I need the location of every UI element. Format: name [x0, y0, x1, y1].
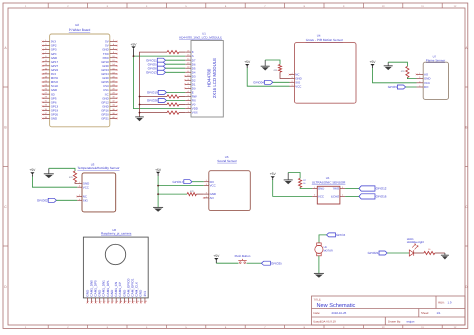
- U4 pins NC GND SIG VCC: [289, 72, 302, 88]
- svg-text:11: 11: [421, 5, 424, 8]
- svg-text:GPIO02: GPIO02: [37, 198, 48, 202]
- svg-text:1k: 1k: [428, 248, 431, 251]
- svg-text:9: 9: [121, 300, 122, 303]
- ground (LCD): [135, 116, 144, 121]
- svg-text:C: C: [4, 205, 7, 209]
- ground (motor): [314, 273, 324, 277]
- push button SW: [235, 254, 251, 264]
- svg-text:2: 2: [206, 183, 207, 186]
- svg-text:4: 4: [291, 72, 292, 75]
- svg-text:GND: GND: [318, 187, 324, 191]
- svg-text:GPIO26: GPIO26: [147, 99, 158, 103]
- resistor 1k (LED): [424, 248, 435, 255]
- svg-text:REV:: REV:: [438, 301, 445, 305]
- IC U5 ULTRASONIC SENSOR: [312, 176, 346, 204]
- wire LED to resistor: [414, 252, 424, 254]
- wire GPIO6 to D5: [166, 67, 186, 69]
- svg-text:2: 2: [314, 194, 315, 197]
- U2 left pins 1-39: [42, 39, 59, 121]
- svg-text:GPIO21: GPIO21: [368, 251, 379, 255]
- ground (U3): [44, 168, 54, 178]
- svg-text:7: 7: [264, 5, 266, 8]
- svg-text:1: 1: [188, 110, 189, 113]
- U5 pins GND TRIG VCC ECHO: [312, 186, 345, 199]
- svg-text:VCC: VCC: [210, 184, 216, 188]
- wire motor to ground: [318, 256, 320, 274]
- wire resistor to U5 GND: [300, 187, 312, 188]
- +5V power flag (U6): [155, 168, 162, 176]
- svg-text:+5V: +5V: [131, 42, 138, 46]
- svg-text:1.0: 1.0: [448, 301, 452, 305]
- svg-text:U2: U2: [75, 23, 79, 27]
- svg-text:Grove - PIR Motion Sensor: Grove - PIR Motion Sensor: [306, 38, 343, 42]
- svg-text:ULTRASONIC SENSOR: ULTRASONIC SENSOR: [312, 180, 346, 184]
- wire +5V to U4 VCC: [247, 68, 289, 86]
- svg-text:Drawn By:: Drawn By:: [388, 320, 401, 324]
- ground (LED): [441, 253, 449, 260]
- svg-text:3: 3: [419, 80, 420, 83]
- svg-text:srajan: srajan: [407, 320, 415, 324]
- svg-text:15: 15: [187, 54, 189, 57]
- svg-text:R?: R?: [303, 179, 307, 182]
- svg-text:10: 10: [187, 74, 189, 77]
- svg-text:+5V: +5V: [244, 60, 251, 64]
- svg-text:GPIO04: GPIO04: [253, 80, 264, 84]
- svg-text:1: 1: [79, 181, 80, 184]
- svg-text:3V3: 3V3: [143, 291, 147, 297]
- svg-text:4: 4: [100, 300, 101, 303]
- svg-text:GPIO25: GPIO25: [271, 261, 282, 265]
- net flag GPIO4 (motor): [327, 233, 346, 237]
- net flag GPIO9: [388, 85, 406, 89]
- svg-text:1/1: 1/1: [437, 311, 441, 315]
- svg-text:GPIO17: GPIO17: [172, 180, 183, 184]
- IC U8 Raspberry pi camera: [83, 228, 148, 298]
- net flag GPIO19: [147, 90, 167, 94]
- ground (U4): [261, 60, 270, 71]
- svg-text:6: 6: [188, 90, 189, 93]
- wire ground to resistor (U7): [388, 62, 407, 66]
- svg-text:+5V: +5V: [270, 172, 277, 176]
- svg-text:2: 2: [291, 80, 292, 83]
- svg-text:B: B: [4, 126, 7, 130]
- svg-text:4: 4: [146, 5, 148, 8]
- svg-text:Push Button: Push Button: [235, 254, 251, 258]
- svg-text:Temperature&Humidity Sensor: Temperature&Humidity Sensor: [77, 166, 119, 170]
- net flag GPIO26: [147, 99, 167, 103]
- net flag GPIO16: [359, 194, 387, 199]
- svg-text:TITLE:: TITLE:: [314, 298, 322, 301]
- svg-text:1: 1: [88, 300, 89, 303]
- svg-text:8: 8: [304, 5, 306, 8]
- svg-text:6: 6: [225, 5, 227, 8]
- svg-text:DO: DO: [424, 85, 429, 89]
- svg-text:7: 7: [188, 86, 189, 89]
- svg-text:470: 470: [273, 69, 277, 72]
- wire TRIG to flag: [345, 188, 359, 190]
- svg-text:+5V: +5V: [155, 168, 162, 172]
- wire resistor to ground (LED): [435, 252, 445, 254]
- net flag GPIO17: [172, 180, 192, 184]
- svg-text:1: 1: [291, 84, 292, 87]
- net flag GPIO11: [146, 58, 165, 62]
- svg-text:GPIO9: GPIO9: [388, 85, 398, 89]
- resistor 470 (U3): [69, 171, 77, 182]
- svg-text:3: 3: [291, 76, 292, 79]
- svg-text:VCC: VCC: [295, 84, 301, 88]
- svg-text:3: 3: [96, 300, 97, 303]
- svg-text:470: 470: [69, 176, 73, 179]
- resistor (LCD backlight K row): [167, 51, 185, 54]
- resistor 470 (U4): [273, 65, 281, 73]
- svg-text:Sound Sensor: Sound Sensor: [217, 159, 237, 163]
- wire ECHO to flag: [345, 195, 359, 197]
- svg-text:10: 10: [382, 5, 385, 8]
- +5V power flag (LCD): [131, 42, 138, 56]
- svg-text:AO: AO: [210, 196, 215, 200]
- svg-text:+5V: +5V: [29, 168, 36, 172]
- wire +5V to push button: [216, 262, 238, 264]
- net flag GPIO13: [146, 70, 166, 74]
- svg-text:12: 12: [187, 66, 189, 69]
- svg-text:VSS: VSS: [192, 111, 198, 115]
- U3 pins GND VCC NC SIG: [76, 181, 89, 203]
- IC U4 Grove PIR Motion Sensor: [295, 33, 357, 103]
- U7 pins AO GND VCC DO: [416, 72, 431, 89]
- svg-text:13: 13: [137, 300, 139, 303]
- svg-text:4: 4: [342, 194, 343, 197]
- net flag GPIO25: [261, 261, 282, 265]
- ground (U7): [384, 62, 393, 70]
- svg-text:2: 2: [79, 185, 80, 188]
- svg-text:6: 6: [109, 300, 110, 303]
- svg-text:11: 11: [187, 70, 189, 73]
- svg-text:2X16 LCD MODULE: 2X16 LCD MODULE: [212, 58, 217, 98]
- svg-text:LEDBlue-light: LEDBlue-light: [407, 240, 424, 244]
- IC U3 Temperature&Humidity Sensor: [77, 163, 119, 212]
- svg-text:14: 14: [141, 300, 143, 303]
- wire GPIO5 to D6: [166, 63, 186, 65]
- IC U1 HD44780 16x2 LCD module: [179, 32, 223, 117]
- svg-text:8: 8: [117, 300, 118, 303]
- svg-text:1: 1: [25, 5, 27, 8]
- junction node at +5V rail: [133, 55, 135, 57]
- U6 pins DO VCC GND AO: [203, 179, 216, 200]
- svg-text:GPIO4: GPIO4: [336, 233, 346, 237]
- svg-text:3: 3: [79, 194, 80, 197]
- svg-text:12: 12: [133, 300, 135, 303]
- +5V power flag (U7): [370, 60, 377, 68]
- resistor 470 (U6): [157, 190, 204, 196]
- svg-text:SIG: SIG: [83, 198, 89, 202]
- wire resistor to U4 GND: [280, 72, 290, 78]
- svg-text:Raspberry_pi_camera: Raspberry_pi_camera: [101, 231, 132, 235]
- resistor (LCD VSS row): [139, 111, 186, 114]
- +5V power flag (push button): [213, 254, 220, 263]
- +5V power flag (U5): [270, 172, 277, 180]
- svg-text:4: 4: [79, 198, 80, 201]
- svg-text:15: 15: [145, 300, 147, 303]
- svg-text:VCC: VCC: [318, 195, 324, 199]
- net flag GPIO5: [148, 62, 166, 66]
- wire GPIO26 to RS: [166, 100, 185, 102]
- wire resistor to U7 GND: [407, 78, 416, 79]
- svg-text:GPIO13: GPIO13: [146, 70, 157, 74]
- svg-text:U5: U5: [326, 176, 330, 180]
- svg-text:12: 12: [454, 5, 457, 8]
- svg-text:GPIO19: GPIO19: [147, 91, 158, 95]
- svg-text:10: 10: [125, 300, 127, 303]
- svg-text:Date:: Date:: [314, 311, 321, 315]
- svg-text:3: 3: [206, 192, 207, 195]
- svg-text:5: 5: [105, 300, 106, 303]
- svg-text:2018-10-25: 2018-10-25: [332, 311, 347, 315]
- wire GPIO13 to D4: [166, 71, 186, 73]
- svg-text:16: 16: [187, 50, 189, 53]
- net flag GPIO21 (LED): [368, 251, 388, 255]
- U1 pins 16..1: [184, 50, 198, 115]
- +5V power flag (U4): [244, 60, 251, 68]
- svg-text:4: 4: [206, 195, 207, 198]
- svg-text:13: 13: [187, 62, 189, 65]
- svg-text:1k: 1k: [303, 182, 306, 185]
- IC U7 Flame Sensor: [423, 55, 448, 100]
- svg-text:U4: U4: [317, 33, 321, 37]
- svg-text:GPIO16: GPIO16: [376, 195, 387, 199]
- svg-text:5: 5: [185, 5, 187, 8]
- ground (U5): [284, 173, 293, 185]
- svg-text:+5V: +5V: [370, 60, 377, 64]
- svg-text:+5V: +5V: [213, 254, 220, 258]
- wire +5V to U3 VCC: [32, 177, 77, 188]
- wire flag to motor: [319, 235, 327, 243]
- title block: [312, 296, 466, 325]
- wire ground to resistor top (U3): [49, 168, 75, 171]
- wire to U6 VCC: [157, 185, 204, 187]
- wire GPIO19 to E: [166, 91, 185, 93]
- svg-text:8: 8: [188, 82, 189, 85]
- svg-text:1: 1: [206, 179, 207, 182]
- svg-text:9: 9: [343, 5, 345, 8]
- svg-text:VCC: VCC: [83, 185, 89, 189]
- wire GPIO04 to U4 SIG: [273, 81, 290, 83]
- net flag GPIO12: [359, 186, 387, 191]
- +5V rail wire down to ground (U6): [157, 176, 159, 207]
- svg-text:1: 1: [314, 186, 315, 189]
- svg-text:New Schematic: New Schematic: [317, 302, 356, 309]
- resistor (LCD V0 row): [139, 103, 186, 106]
- svg-text:11: 11: [129, 300, 131, 303]
- svg-text:3: 3: [107, 5, 109, 8]
- net flag GPIO6: [148, 66, 166, 70]
- svg-text:4: 4: [419, 85, 420, 88]
- net flag GPIO02: [37, 198, 57, 202]
- wire GPIO11 to D7: [166, 59, 186, 61]
- svg-text:Sheet:: Sheet:: [421, 311, 429, 315]
- U8 camera pins 1-15: [85, 278, 147, 303]
- svg-text:GP21: GP21: [101, 117, 109, 121]
- svg-text:2: 2: [92, 300, 93, 303]
- svg-text:14: 14: [187, 58, 189, 61]
- svg-text:2: 2: [188, 106, 189, 109]
- wire ground to resistor (U5): [288, 173, 300, 179]
- wire +5V to U5 VCC: [273, 180, 312, 196]
- svg-text:3: 3: [342, 186, 343, 189]
- U2 right pins 2-40: [101, 39, 117, 121]
- svg-text:EasyEDA V5.9.19: EasyEDA V5.9.19: [314, 320, 337, 324]
- motor U9: [315, 243, 333, 256]
- resistor 470 (U7): [401, 66, 409, 77]
- wire GPIO9 to U7 DO: [406, 86, 417, 88]
- IC U6 Sound Sensor: [209, 155, 251, 211]
- svg-text:4: 4: [188, 98, 189, 101]
- resistor R? 1k (U5): [299, 178, 307, 187]
- svg-text:3: 3: [188, 102, 189, 105]
- wire flag to LED: [387, 252, 409, 254]
- svg-text:MOTOR: MOTOR: [324, 249, 333, 252]
- svg-text:2: 2: [67, 5, 69, 8]
- svg-text:9: 9: [188, 78, 189, 81]
- svg-text:TRIG: TRIG: [333, 187, 340, 191]
- svg-text:GND: GND: [51, 117, 57, 121]
- svg-text:7: 7: [113, 300, 114, 303]
- svg-text:D: D: [4, 285, 7, 289]
- svg-text:2: 2: [419, 76, 420, 79]
- wire ground to resistor (U4): [265, 60, 280, 65]
- svg-text:1: 1: [419, 72, 420, 75]
- wire resistor to U3 GND pin: [75, 182, 77, 183]
- wire GPIO02 to U3 SIG: [56, 199, 77, 201]
- red resistor rail wire (LCD): [140, 52, 168, 116]
- svg-text:470: 470: [401, 70, 405, 73]
- svg-text:Pi Wider Board: Pi Wider Board: [69, 28, 91, 32]
- svg-text:ECHO: ECHO: [331, 195, 340, 199]
- svg-text:HD44780: HD44780: [207, 68, 212, 87]
- wire push button to flag: [247, 262, 262, 264]
- green +5V rail wire (LCD): [134, 56, 186, 109]
- +5V power flag (U3): [29, 168, 36, 176]
- wire +5V to LCD pin A: [134, 55, 186, 57]
- resistor (LCD RW row): [139, 95, 186, 98]
- ground (U6): [153, 207, 163, 211]
- IC U2 Pi Wider Board: [50, 23, 110, 127]
- svg-text:5: 5: [188, 94, 189, 97]
- LED1 LEDBlue-light: [407, 237, 424, 256]
- svg-text:A: A: [4, 46, 7, 50]
- svg-text:GPIO12: GPIO12: [376, 187, 387, 191]
- wire +5V to U7 VCC: [373, 68, 417, 83]
- svg-text:HD44780_16x2_LCD_MODULE: HD44780_16x2_LCD_MODULE: [179, 36, 222, 40]
- net flag GPIO04: [253, 80, 273, 84]
- wire GPIO17 to U6 DO: [192, 181, 204, 183]
